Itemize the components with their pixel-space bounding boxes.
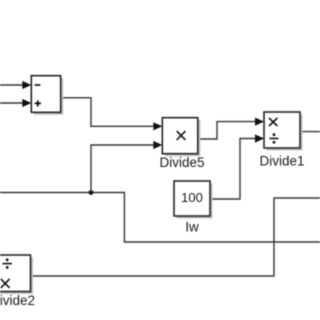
svg-text:Divide2: Divide2 — [0, 293, 35, 308]
product block Divide5 — [162, 118, 198, 154]
multiply sign on Divide1 input 1 — [269, 118, 277, 126]
wire: input 1 to Sum1 — [0, 84, 23, 86]
plus sign on Sum1 input 2 — [35, 100, 41, 106]
wire: long signal from left edge — [0, 193, 320, 243]
divide block Divide2 — [0, 255, 31, 292]
divide block Divide1 — [264, 112, 300, 148]
divide block Divide2 shadow — [0, 258, 33, 295]
wire: Iw constant output to Divide1 input 2 — [210, 139, 255, 200]
wire arrowhead into Divide1 input 1 — [255, 118, 264, 126]
multiply sign on Divide2 input 2 — [1, 279, 10, 288]
svg-text:Divide1: Divide1 — [259, 153, 304, 168]
node junction on long signal — [89, 190, 94, 195]
svg-text:100: 100 — [181, 190, 203, 205]
wire: Divide1 output to right edge — [300, 131, 320, 133]
wire arrowhead into Divide1 input 2 — [255, 134, 264, 142]
wire arrowhead into Divide5 input 2 — [153, 141, 162, 149]
product block Divide5 shadow — [165, 120, 201, 156]
svg-text:Divide5: Divide5 — [159, 155, 204, 170]
wire: input 2 to Sum1 — [0, 102, 23, 104]
divide block Divide1 shadow — [267, 115, 303, 151]
constant block Iw — [174, 181, 210, 216]
sum block Sum1 — [31, 76, 60, 113]
minus sign on Sum1 input 1 — [35, 84, 41, 86]
wire arrowhead into Sum1 bottom input — [22, 99, 31, 107]
wire arrowhead into Sum1 top input — [22, 81, 31, 89]
divide sign on Divide2 input 1 — [3, 258, 13, 268]
wire: Sum1 output to Divide5 input 1 — [61, 98, 154, 127]
wire: Divide5 output to Divide1 input 1 — [198, 122, 255, 139]
multiply sign in Divide5 — [177, 131, 186, 140]
svg-text:Iw: Iw — [185, 219, 199, 234]
divide sign on Divide1 input 2 — [270, 133, 279, 143]
wire: Divide2 output across, up and out right edge — [31, 198, 320, 276]
constant block Iw shadow — [177, 184, 213, 219]
wire: branch from junction up to Divide5 input 2 — [91, 145, 154, 193]
wire arrowhead into Divide5 input 1 — [153, 122, 162, 130]
sum block Sum1 shadow — [34, 78, 63, 115]
